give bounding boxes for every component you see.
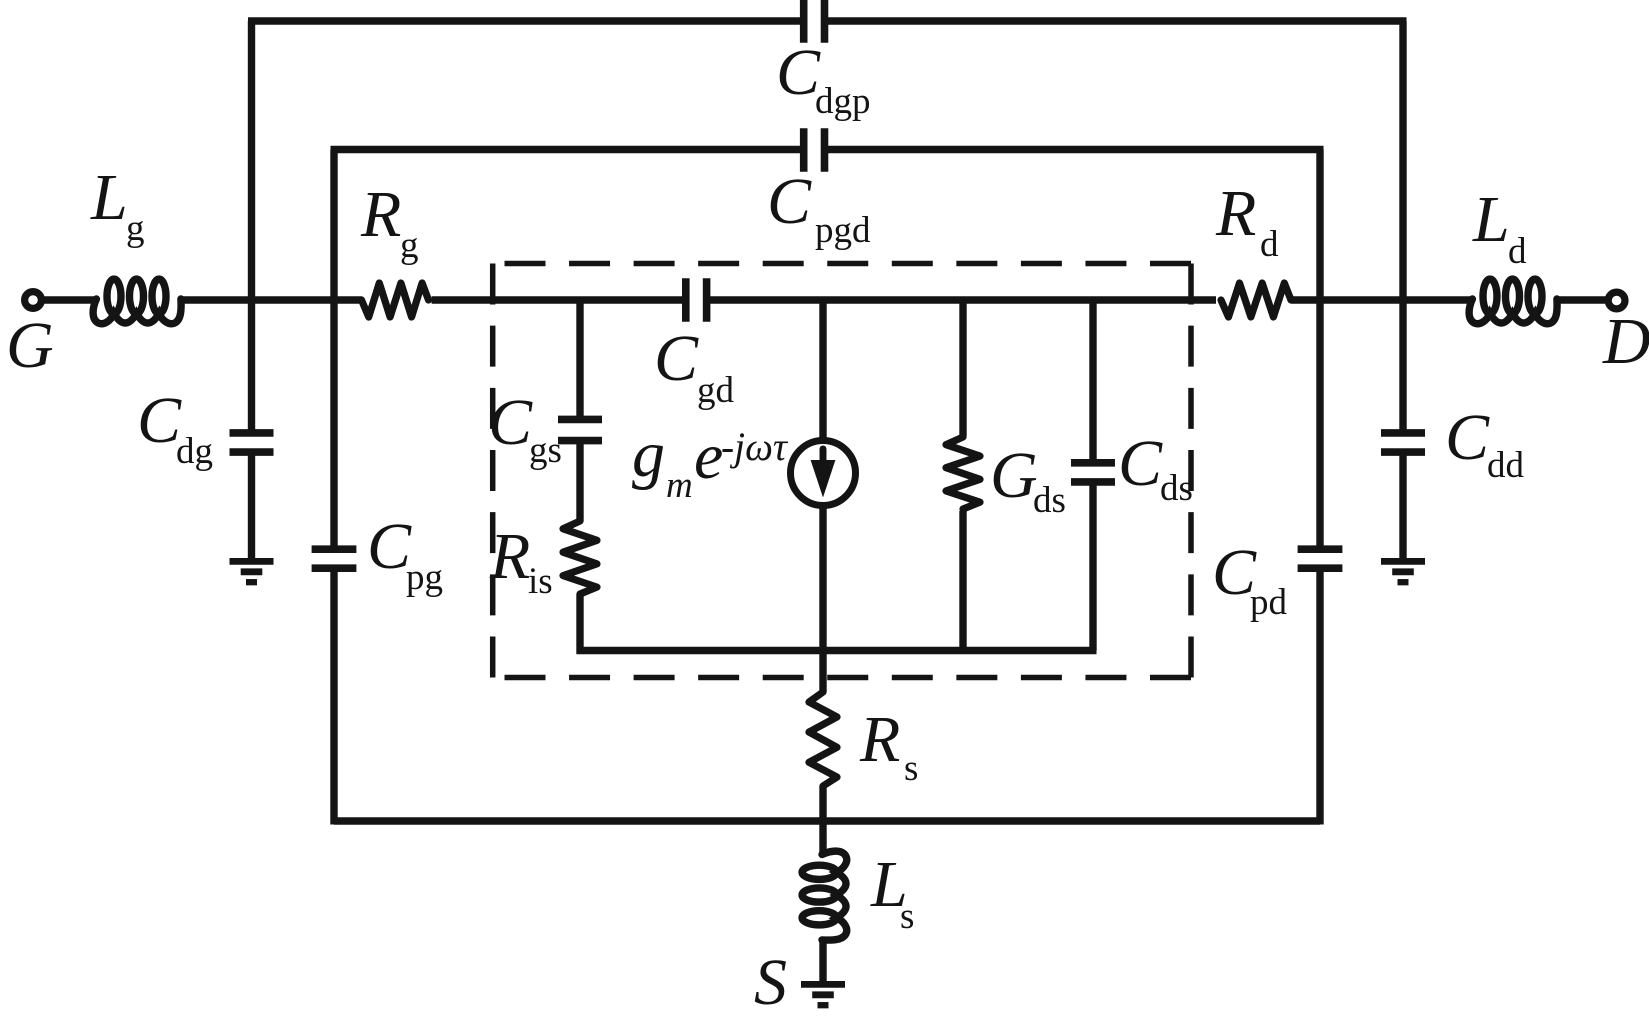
svg-text:s: s bbox=[900, 896, 914, 937]
wire: L_g to R_g (through C_dg and C_pg nodes) bbox=[180, 296, 363, 303]
wire: C_dd to ground bbox=[1399, 452, 1406, 559]
wire: C_gd to R_d (internal drain node) bbox=[708, 296, 1216, 303]
wire: right vertical of C_pgd loop / C_pd branch upper bbox=[1316, 150, 1323, 550]
wire: internal drain node down to current source bbox=[819, 300, 826, 441]
wire: R_d to L_d bbox=[1291, 296, 1474, 303]
capacitor C_dgp bbox=[800, 0, 808, 43]
capacitor C_dd bbox=[1381, 429, 1425, 437]
svg-text:R: R bbox=[1215, 177, 1256, 250]
svg-text:d: d bbox=[1508, 231, 1527, 272]
resistor R_d bbox=[1221, 283, 1291, 317]
svg-text:pg: pg bbox=[406, 557, 443, 598]
svg-text:pd: pd bbox=[1250, 582, 1288, 623]
wire: R_g to C_gd bbox=[432, 296, 685, 303]
resistor R_s bbox=[809, 692, 837, 786]
svg-text:pgd: pgd bbox=[815, 210, 871, 251]
svg-text:C: C bbox=[767, 165, 812, 238]
wire: R_is to inner source rail bbox=[576, 594, 583, 654]
wire: G_ds to inner source rail bbox=[959, 511, 966, 651]
wire: inner bottom rail (source node inside intrinsic box) bbox=[577, 647, 1097, 654]
wire: G terminal to L_g bbox=[44, 296, 98, 303]
svg-text:is: is bbox=[528, 561, 553, 602]
capacitor C_ds bbox=[1071, 459, 1115, 467]
capacitor C_gd bbox=[682, 278, 690, 322]
wire: L_s to source ground bbox=[819, 939, 826, 985]
wire: inner source rail down to R_s bbox=[819, 651, 826, 693]
wire: C_pg to bottom rail bbox=[330, 568, 337, 825]
svg-text:S: S bbox=[754, 946, 787, 1019]
svg-text:g: g bbox=[400, 225, 419, 266]
svg-text:R: R bbox=[360, 178, 401, 251]
wire: gate line down to C_gs bbox=[576, 300, 583, 420]
ground (source S) bbox=[801, 981, 845, 988]
svg-text:gd: gd bbox=[697, 370, 735, 411]
dashed box: intrinsic FET boundary (bottom) bbox=[505, 675, 1192, 681]
capacitor C_pg bbox=[312, 545, 357, 553]
svg-text:dg: dg bbox=[176, 431, 213, 472]
current source g_m (circle with arrow) bbox=[791, 441, 856, 506]
inductor L_s bbox=[822, 851, 847, 940]
svg-text:e: e bbox=[694, 420, 723, 493]
capacitor C_pgd bbox=[800, 128, 808, 172]
wire: left vertical of outer feedback loop (node G-pad to Cdgp) bbox=[248, 21, 255, 433]
svg-text:L: L bbox=[1472, 183, 1510, 256]
svg-text:R: R bbox=[859, 703, 900, 776]
svg-text:L: L bbox=[90, 161, 128, 234]
inductor L_g bbox=[93, 299, 181, 324]
wire: drain line down to C_ds bbox=[1089, 300, 1096, 463]
wire: C_dg to ground bbox=[248, 452, 255, 559]
wire: outer bottom rail (C_pg to C_pd) bbox=[334, 817, 1320, 824]
inductor L_d bbox=[1469, 299, 1557, 324]
dashed box: intrinsic FET boundary (left) bbox=[490, 264, 496, 678]
wire: left vertical of C_pgd loop / C_pg branch upper bbox=[330, 150, 337, 550]
wire: second top loop left segment bbox=[331, 146, 801, 153]
capacitor C_dg bbox=[230, 429, 274, 437]
svg-text:gs: gs bbox=[529, 430, 562, 471]
svg-text:s: s bbox=[904, 748, 918, 789]
wire: R_s to outer bottom rail bbox=[819, 786, 826, 825]
svg-text:C: C bbox=[488, 386, 533, 459]
svg-text:m: m bbox=[666, 465, 693, 506]
svg-text:g: g bbox=[126, 208, 145, 249]
svg-text:dd: dd bbox=[1487, 445, 1525, 486]
wire: outer top loop right segment bbox=[828, 17, 1407, 24]
svg-text:-jωτ: -jωτ bbox=[721, 424, 789, 469]
svg-text:C: C bbox=[1118, 427, 1163, 500]
wire: right vertical of outer loop (Cdgp to drain node) bbox=[1399, 21, 1406, 433]
wire: L_d to D terminal bbox=[1556, 296, 1607, 303]
wire: C_pd to bottom rail bbox=[1316, 568, 1323, 825]
svg-text:dgp: dgp bbox=[815, 81, 871, 122]
resistor R_g bbox=[362, 283, 429, 317]
svg-text:D: D bbox=[1602, 305, 1649, 378]
dashed box: intrinsic FET boundary (right) bbox=[1188, 264, 1194, 678]
wire: current source to inner source rail bbox=[819, 506, 826, 651]
capacitor C_gs bbox=[558, 416, 602, 424]
terminal G (open circle) bbox=[25, 292, 42, 309]
svg-text:d: d bbox=[1260, 224, 1279, 265]
svg-text:ds: ds bbox=[1160, 468, 1193, 509]
capacitor C_pd bbox=[1298, 545, 1343, 553]
wire: drain line down to G_ds bbox=[959, 300, 966, 436]
wire: second top loop right segment bbox=[828, 146, 1324, 153]
wire: outer top loop left segment bbox=[248, 17, 801, 24]
resistor G_ds bbox=[946, 437, 980, 509]
terminal D (open circle) bbox=[1608, 292, 1625, 309]
svg-text:G: G bbox=[6, 309, 54, 382]
resistor R_is bbox=[563, 521, 597, 594]
ground (C_dg) bbox=[230, 558, 274, 565]
svg-text:ds: ds bbox=[1033, 480, 1066, 521]
svg-text:G: G bbox=[990, 439, 1038, 512]
svg-text:C: C bbox=[654, 322, 699, 395]
wire: bottom rail to L_s bbox=[819, 821, 826, 856]
wire: C_ds to inner source rail bbox=[1089, 482, 1096, 651]
svg-text:C: C bbox=[1445, 401, 1490, 474]
dashed box: intrinsic FET boundary (top) bbox=[505, 261, 1192, 267]
svg-text:g: g bbox=[632, 418, 665, 491]
wire: C_gs to R_is bbox=[576, 440, 583, 521]
svg-text:R: R bbox=[489, 520, 530, 593]
ground (C_dd) bbox=[1381, 558, 1425, 565]
